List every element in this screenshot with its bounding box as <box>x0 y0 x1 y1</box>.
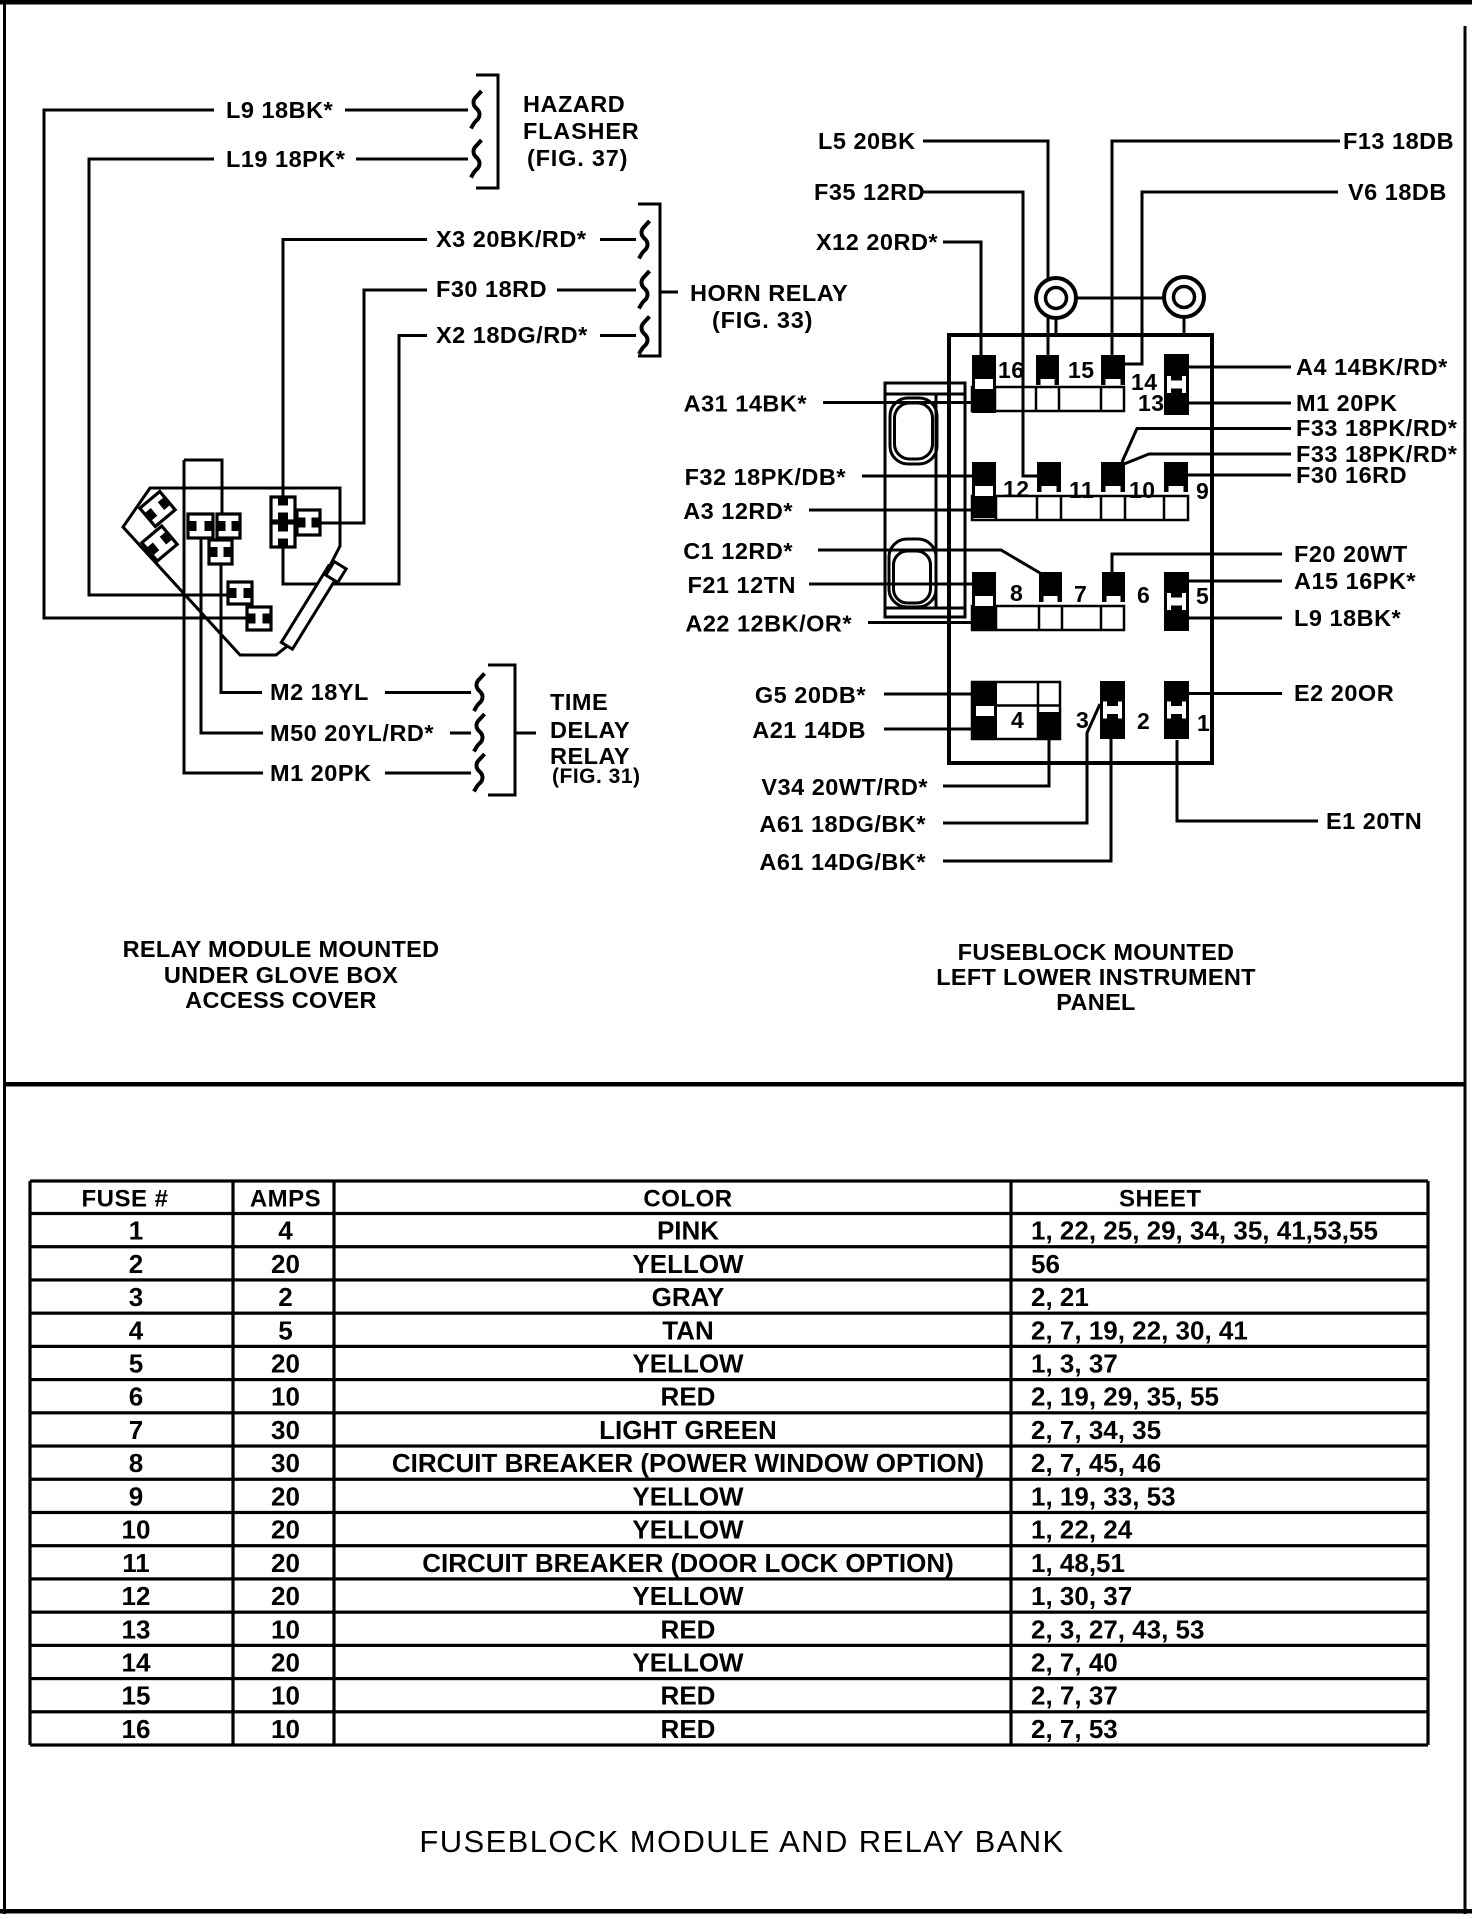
svg-text:TAN: TAN <box>662 1315 714 1345</box>
svg-text:10: 10 <box>271 1681 300 1711</box>
svg-text:7: 7 <box>1074 581 1087 607</box>
svg-text:2, 19, 29, 35, 55: 2, 19, 29, 35, 55 <box>1031 1382 1219 1412</box>
svg-text:20: 20 <box>271 1515 300 1545</box>
svg-text:RED: RED <box>661 1614 716 1644</box>
svg-text:G5 20DB*: G5 20DB* <box>755 682 866 708</box>
svg-text:F30 18RD: F30 18RD <box>436 276 547 302</box>
wire between mounting bolts <box>1077 297 1163 300</box>
svg-text:V6 18DB: V6 18DB <box>1348 179 1447 205</box>
fuseblock mounting bolt left <box>1036 278 1076 318</box>
wire L19 run to relay module connector D <box>89 158 228 596</box>
wire L9 18BK* from fuse 5 <box>1189 617 1282 620</box>
wire A3 12RD* to fuse 12 <box>809 509 972 512</box>
svg-text:11: 11 <box>1069 477 1094 503</box>
wire-break symbol X2 <box>639 317 650 355</box>
svg-text:E2 20OR: E2 20OR <box>1294 680 1394 706</box>
wire V6 18DB to fuse 14 <box>1125 192 1338 364</box>
svg-text:30: 30 <box>271 1448 300 1478</box>
svg-text:HORN RELAY: HORN RELAY <box>690 280 848 306</box>
bracket time delay relay <box>488 665 515 795</box>
wire F33 18PK/RD* upper to fuse 10 <box>1122 429 1291 463</box>
svg-text:E1 20TN: E1 20TN <box>1326 808 1422 834</box>
svg-text:5: 5 <box>129 1348 143 1378</box>
svg-text:X2 18DG/RD*: X2 18DG/RD* <box>436 322 588 348</box>
svg-text:10: 10 <box>122 1515 151 1545</box>
bracket hazard flasher <box>476 75 498 188</box>
svg-text:PANEL: PANEL <box>1056 989 1135 1015</box>
wire X3 20BK/RD* to horn relay <box>283 238 427 241</box>
wire A61 14DG/BK* to fuse 2 <box>943 739 1111 861</box>
svg-text:M1 20PK: M1 20PK <box>270 760 371 786</box>
svg-text:10: 10 <box>271 1382 300 1412</box>
fuse 2 <box>1100 681 1125 739</box>
wire tab to connector B <box>221 488 224 514</box>
wire M1 20PK from module tab <box>184 488 263 773</box>
svg-text:A31 14BK*: A31 14BK* <box>684 391 808 417</box>
svg-text:10: 10 <box>271 1614 300 1644</box>
svg-text:10: 10 <box>1129 477 1156 503</box>
wire A31 14BK* to fuse 16 <box>823 401 972 404</box>
svg-text:1, 19, 33, 53: 1, 19, 33, 53 <box>1031 1481 1176 1511</box>
svg-text:2, 7, 45, 46: 2, 7, 45, 46 <box>1031 1448 1161 1478</box>
wire M50 20YL/RD* from connector A <box>201 537 263 733</box>
svg-text:14: 14 <box>122 1647 151 1677</box>
svg-text:20: 20 <box>271 1581 300 1611</box>
svg-text:2, 7, 40: 2, 7, 40 <box>1031 1647 1118 1677</box>
wire A21 14DB to fuse 4 <box>884 728 972 731</box>
fuse 5 <box>1164 572 1189 631</box>
svg-text:A21 14DB: A21 14DB <box>752 717 866 743</box>
fuse 4 terminals <box>973 682 997 738</box>
svg-text:12: 12 <box>122 1581 151 1611</box>
page border bottom <box>0 1909 1472 1914</box>
relay module connector F <box>271 497 295 521</box>
svg-text:1, 3, 37: 1, 3, 37 <box>1031 1348 1118 1378</box>
fuseblock side connector bracket <box>885 383 965 617</box>
svg-text:2: 2 <box>278 1282 292 1312</box>
svg-text:12: 12 <box>1003 476 1030 502</box>
svg-text:L9 18BK*: L9 18BK* <box>1294 605 1402 631</box>
page border right <box>1464 26 1467 1914</box>
relay module body outline <box>123 488 340 655</box>
svg-text:FLASHER: FLASHER <box>523 118 640 144</box>
fuse 10 top terminal <box>1101 462 1125 492</box>
svg-text:TIME: TIME <box>550 689 608 715</box>
fuse 16 terminals <box>972 355 996 413</box>
svg-text:7: 7 <box>129 1415 143 1445</box>
svg-text:A4 14BK/RD*: A4 14BK/RD* <box>1296 354 1448 380</box>
wire L9 run to relay module connector E <box>44 109 247 619</box>
wire X2 run to connector G <box>283 334 399 584</box>
svg-text:30: 30 <box>271 1415 300 1445</box>
wire F13 18DB to fuse 14 <box>1112 141 1340 355</box>
wire F30 run to connector H <box>319 289 364 524</box>
svg-text:2, 7, 37: 2, 7, 37 <box>1031 1681 1118 1711</box>
svg-text:F35 12RD: F35 12RD <box>814 179 925 205</box>
svg-text:4: 4 <box>278 1216 293 1246</box>
wire X3 run to connector F <box>282 238 285 497</box>
fuse row 2 housing strip <box>972 496 1188 520</box>
svg-text:C1 12RD*: C1 12RD* <box>683 538 793 564</box>
bracket horn relay <box>638 204 660 356</box>
svg-text:20: 20 <box>271 1647 300 1677</box>
page border left <box>3 0 6 1914</box>
svg-text:(FIG. 37): (FIG. 37) <box>527 145 628 171</box>
relay module flange connector (rotated) 1 <box>140 491 175 526</box>
svg-text:L9 18BK*: L9 18BK* <box>226 97 334 123</box>
svg-text:ACCESS COVER: ACCESS COVER <box>185 987 377 1013</box>
svg-text:10: 10 <box>271 1714 300 1744</box>
svg-text:2, 7, 34, 35: 2, 7, 34, 35 <box>1031 1415 1161 1445</box>
svg-text:13: 13 <box>122 1614 151 1644</box>
wire G5 20DB* to fuse 4 <box>884 693 972 696</box>
wire M2 18YL from connector C <box>221 564 262 693</box>
wire C1 12RD* to fuse 7 <box>818 550 1040 573</box>
svg-text:RELAY MODULE MOUNTED: RELAY MODULE MOUNTED <box>123 936 440 962</box>
fuse 1 <box>1164 681 1189 739</box>
svg-text:FUSE #: FUSE # <box>81 1185 168 1212</box>
fuse 8 terminals <box>972 572 996 630</box>
fuse table grid <box>30 1179 1428 1182</box>
fuse 14 top terminal <box>1101 355 1125 385</box>
svg-text:DELAY: DELAY <box>550 717 630 743</box>
svg-text:AMPS: AMPS <box>250 1185 321 1212</box>
fuse 15 top terminal <box>1036 355 1059 385</box>
svg-text:20: 20 <box>271 1548 300 1578</box>
fuse 13 <box>1164 354 1189 415</box>
relay module connector A <box>188 514 213 538</box>
svg-text:4: 4 <box>1011 707 1024 733</box>
svg-text:2: 2 <box>1137 708 1150 734</box>
svg-text:8: 8 <box>1010 580 1023 606</box>
svg-text:LIGHT GREEN: LIGHT GREEN <box>599 1415 777 1445</box>
wire F30 18RD to horn relay <box>364 289 427 292</box>
svg-text:4: 4 <box>129 1315 144 1345</box>
relay module mounting slot <box>281 566 339 649</box>
wire F32 18PK/DB* to fuse 12 <box>862 475 972 478</box>
svg-text:HAZARD: HAZARD <box>523 91 625 117</box>
svg-text:V34 20WT/RD*: V34 20WT/RD* <box>761 774 928 800</box>
svg-text:F33 18PK/RD*: F33 18PK/RD* <box>1296 415 1458 441</box>
fuse 6 top terminal <box>1102 572 1125 602</box>
fuse 3 bottom terminal <box>1039 712 1059 738</box>
svg-text:L5 20BK: L5 20BK <box>818 128 916 154</box>
svg-text:8: 8 <box>129 1448 143 1478</box>
svg-text:(FIG. 33): (FIG. 33) <box>712 307 813 333</box>
svg-text:20: 20 <box>271 1249 300 1279</box>
relay module connector B <box>217 514 240 538</box>
svg-text:A15 16PK*: A15 16PK* <box>1294 568 1416 594</box>
svg-text:1: 1 <box>1197 710 1210 736</box>
svg-text:11: 11 <box>122 1548 150 1578</box>
svg-text:2, 7, 53: 2, 7, 53 <box>1031 1714 1118 1744</box>
wire E2 20OR from fuse 1 <box>1189 692 1282 695</box>
relay module flange inner edge <box>126 492 147 522</box>
svg-text:YELLOW: YELLOW <box>632 1581 744 1611</box>
wire M1 20PK from fuse 13 <box>1188 402 1291 405</box>
wire-break symbol M1 <box>474 754 485 792</box>
svg-text:RED: RED <box>661 1714 716 1744</box>
svg-text:FUSEBLOCK MODULE AND RELAY BAN: FUSEBLOCK MODULE AND RELAY BANK <box>419 1824 1064 1859</box>
svg-text:2, 7, 19, 22, 30, 41: 2, 7, 19, 22, 30, 41 <box>1031 1315 1248 1345</box>
wire-break symbol M2 <box>474 674 485 712</box>
bracket window lower <box>889 539 936 607</box>
svg-text:F20 20WT: F20 20WT <box>1294 541 1408 567</box>
svg-text:YELLOW: YELLOW <box>632 1647 744 1677</box>
wire F21 12TN to fuse 8 <box>809 583 972 586</box>
svg-text:M2 18YL: M2 18YL <box>270 679 369 705</box>
svg-text:RED: RED <box>661 1382 716 1412</box>
svg-text:A3 12RD*: A3 12RD* <box>683 498 793 524</box>
svg-text:GRAY: GRAY <box>652 1282 725 1312</box>
svg-text:X3 20BK/RD*: X3 20BK/RD* <box>436 226 587 252</box>
fuseblock body outline <box>949 335 1212 763</box>
fuse 12 terminals <box>972 462 996 518</box>
svg-text:13: 13 <box>1138 390 1165 416</box>
svg-text:F21 12TN: F21 12TN <box>688 572 797 598</box>
wire-break symbol L19 <box>471 140 482 178</box>
svg-text:2, 3, 27, 43, 53: 2, 3, 27, 43, 53 <box>1031 1614 1204 1644</box>
wire A15 16PK* from fuse 5 <box>1189 580 1282 583</box>
relay module connector D <box>228 582 252 604</box>
svg-text:M1 20PK: M1 20PK <box>1296 390 1397 416</box>
svg-text:6: 6 <box>129 1382 143 1412</box>
svg-text:PINK: PINK <box>657 1216 719 1246</box>
svg-text:16: 16 <box>122 1714 151 1744</box>
svg-text:2, 21: 2, 21 <box>1031 1282 1089 1312</box>
wire A22 12BK/OR* to fuse 8 <box>868 621 972 624</box>
wire-break symbol L9 <box>471 91 482 129</box>
wire X2 18DG/RD* to horn relay <box>399 334 427 337</box>
fuse row 3 housing strip <box>972 606 1124 630</box>
relay module top tab <box>184 460 222 488</box>
wire A61 18DG/BK* to fuse 2 <box>943 704 1100 823</box>
bolt stem right <box>1183 318 1186 336</box>
svg-text:15: 15 <box>122 1681 151 1711</box>
page border top <box>0 0 1472 5</box>
wire-break symbol X3 <box>639 221 650 259</box>
svg-text:COLOR: COLOR <box>643 1185 732 1212</box>
relay module connector G <box>271 523 295 547</box>
relay module flange connector (rotated) 2 <box>142 526 177 561</box>
svg-text:3: 3 <box>129 1282 143 1312</box>
fuse row 4 housing block <box>972 682 1060 739</box>
wire F35 12RD to fuse row 2 <box>921 192 1037 476</box>
svg-text:LEFT LOWER INSTRUMENT: LEFT LOWER INSTRUMENT <box>936 964 1256 990</box>
wire E1 20TN from fuse 1 <box>1177 740 1318 821</box>
fuse 11 top terminal <box>1037 462 1061 492</box>
svg-text:A22 12BK/OR*: A22 12BK/OR* <box>685 611 852 637</box>
fuse row 1 housing strip <box>972 387 1124 411</box>
svg-text:15: 15 <box>1068 357 1095 383</box>
svg-text:56: 56 <box>1031 1249 1060 1279</box>
svg-text:20: 20 <box>271 1481 300 1511</box>
svg-text:F13 18DB: F13 18DB <box>1343 128 1454 154</box>
wire-break symbol M50 <box>474 714 485 752</box>
svg-text:YELLOW: YELLOW <box>632 1481 744 1511</box>
svg-text:A61 14DG/BK*: A61 14DG/BK* <box>759 849 926 875</box>
svg-text:FUSEBLOCK MOUNTED: FUSEBLOCK MOUNTED <box>958 939 1235 965</box>
wire L5 20BK to fuse 15 <box>923 141 1048 355</box>
fuseblock mounting bolt right <box>1164 277 1204 317</box>
svg-text:5: 5 <box>1196 583 1209 609</box>
wire X12 20RD* to fuse 16 <box>943 242 981 355</box>
svg-text:UNDER GLOVE BOX: UNDER GLOVE BOX <box>164 962 398 988</box>
fuse 7 top terminal <box>1039 572 1062 602</box>
svg-text:(FIG. 31): (FIG. 31) <box>552 765 641 788</box>
svg-text:CIRCUIT BREAKER (POWER WINDOW: CIRCUIT BREAKER (POWER WINDOW OPTION) <box>392 1448 984 1478</box>
svg-text:F32 18PK/DB*: F32 18PK/DB* <box>685 464 847 490</box>
relay module connector E <box>247 607 271 630</box>
svg-text:YELLOW: YELLOW <box>632 1348 744 1378</box>
svg-text:2: 2 <box>129 1249 143 1279</box>
svg-text:YELLOW: YELLOW <box>632 1249 744 1279</box>
wire F33 18PK/RD* lower to fuse 10 <box>1124 454 1291 464</box>
svg-text:L19 18PK*: L19 18PK* <box>226 146 346 172</box>
bracket window upper <box>890 398 937 464</box>
wire A4 14BK/RD* from fuse 13 <box>1188 366 1291 369</box>
svg-text:16: 16 <box>998 357 1025 383</box>
svg-text:1, 48,51: 1, 48,51 <box>1031 1548 1125 1578</box>
fuse 9 top terminal <box>1164 462 1188 492</box>
svg-text:M50 20YL/RD*: M50 20YL/RD* <box>270 720 434 746</box>
svg-text:SHEET: SHEET <box>1119 1185 1202 1212</box>
svg-text:1, 30, 37: 1, 30, 37 <box>1031 1581 1132 1611</box>
svg-text:1: 1 <box>129 1216 143 1246</box>
wire-break symbol F30 <box>639 271 650 309</box>
svg-text:1, 22, 24: 1, 22, 24 <box>1031 1515 1133 1545</box>
svg-text:20: 20 <box>271 1348 300 1378</box>
relay module connector H <box>297 510 320 535</box>
svg-text:1, 22, 25, 29, 34, 35, 41,53,5: 1, 22, 25, 29, 34, 35, 41,53,55 <box>1031 1216 1378 1246</box>
svg-text:CIRCUIT BREAKER (DOOR LOCK OPT: CIRCUIT BREAKER (DOOR LOCK OPTION) <box>422 1548 954 1578</box>
wire L9 18BK* to hazard flasher <box>44 109 214 112</box>
svg-text:A61 18DG/BK*: A61 18DG/BK* <box>759 811 926 837</box>
svg-text:F30 16RD: F30 16RD <box>1296 462 1407 488</box>
svg-text:6: 6 <box>1137 582 1150 608</box>
svg-text:5: 5 <box>278 1315 292 1345</box>
svg-text:YELLOW: YELLOW <box>632 1515 744 1545</box>
wire V34 20WT/RD* to fuse 3 <box>943 739 1049 786</box>
wire F30 16RD from fuse 9 <box>1188 474 1291 477</box>
wire L19 18PK* to hazard flasher <box>89 158 214 161</box>
bolt stem left <box>1055 318 1058 336</box>
svg-text:X12 20RD*: X12 20RD* <box>816 229 938 255</box>
svg-text:9: 9 <box>129 1481 143 1511</box>
relay module connector C <box>209 540 232 564</box>
section divider line <box>6 1082 1464 1087</box>
wire F20 20WT to fuse 6 <box>1112 554 1282 572</box>
svg-text:9: 9 <box>1196 478 1209 504</box>
svg-text:RED: RED <box>661 1681 716 1711</box>
